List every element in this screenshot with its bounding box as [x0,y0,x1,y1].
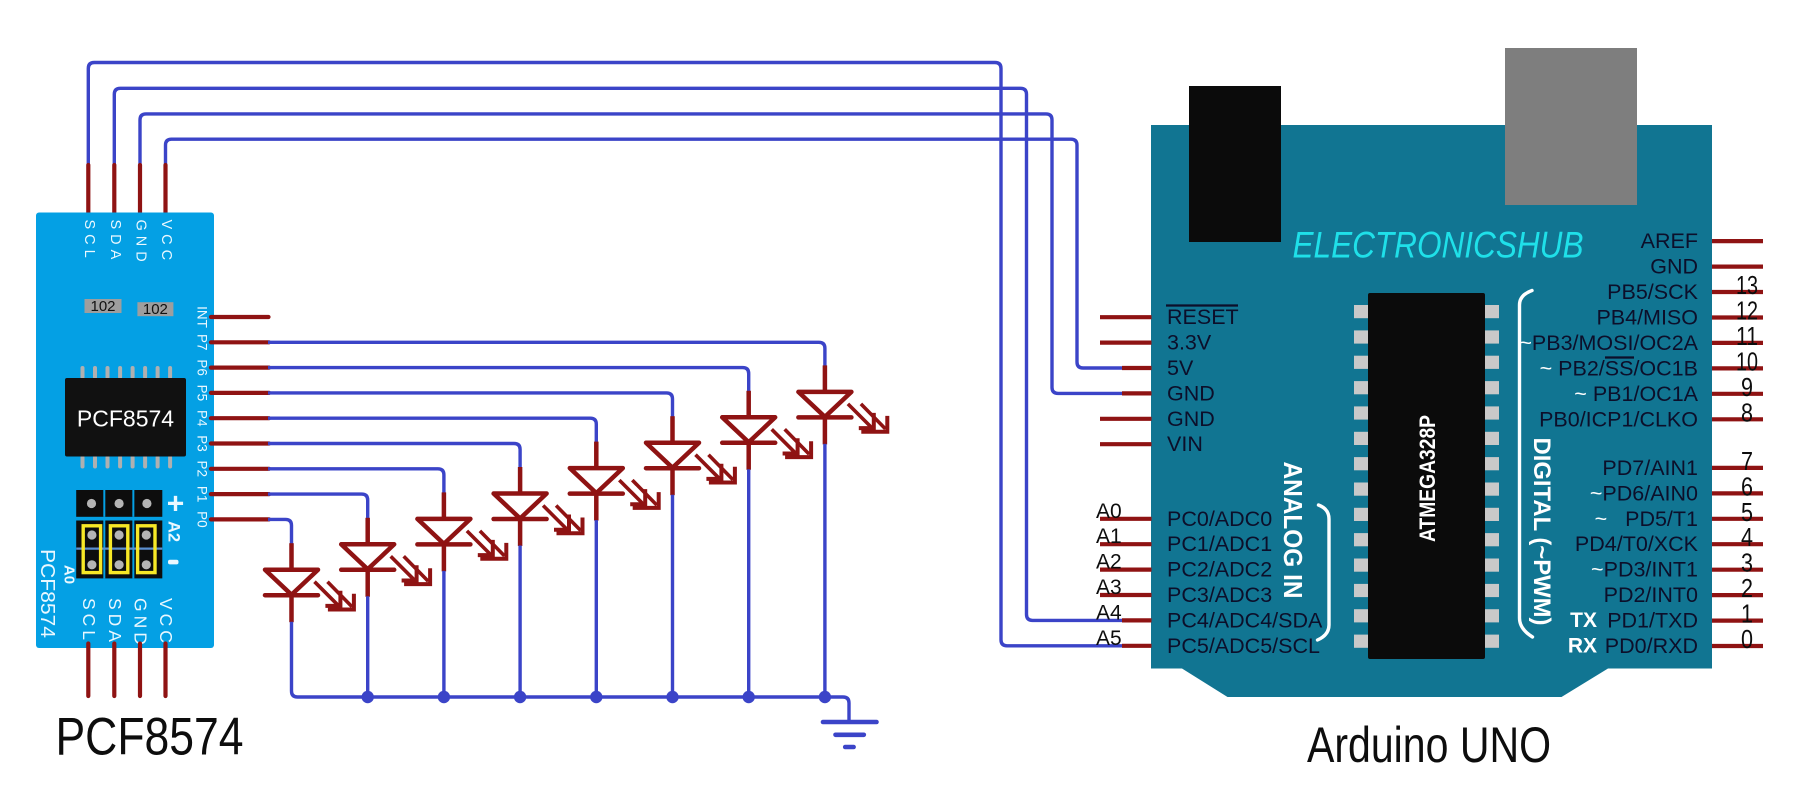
pin stub P3 [211,441,269,445]
svg-text:ATMEGA328P: ATMEGA328P [1415,415,1440,542]
pin line PB5/SCK (right) [1712,290,1763,294]
LED D5 [570,442,661,521]
pin line PB4/MISO (right) [1712,315,1763,319]
wire LED D5 cathode to ground bus [595,520,598,697]
pin line GND (left) [1100,417,1152,421]
pin line A0 [1100,517,1152,521]
pin stub INT [211,315,269,319]
pin line PD7/AIN1 (right) [1712,466,1763,470]
svg-text:~PD6/AIN0: ~PD6/AIN0 [1590,481,1698,505]
pin line GND (right) [1712,265,1763,269]
wire ground bus [292,691,850,722]
jumper block A0/A1/A2 [76,521,162,579]
pin line A4 [1122,618,1152,622]
wire SCL to A5/PC5 [88,63,1123,646]
resistor R1 102 [85,298,122,315]
label minus [168,560,179,565]
svg-text:PB5/SCK: PB5/SCK [1607,280,1698,304]
PCF8574 module board [36,213,214,649]
pin line PD0/RXD (right) [1712,644,1763,648]
svg-text:+: + [167,488,185,521]
Arduino UNO board [1151,125,1712,697]
pin stub P1 [211,492,269,496]
pin line RESET (left) [1100,315,1152,319]
svg-text:VCC: VCC [156,598,176,647]
pin line GND (left) [1122,391,1152,395]
wire LED D8 cathode to ground bus [823,444,826,697]
pin stub P2 [211,467,269,471]
header pads row (+) [76,490,162,517]
svg-text:A5: A5 [1096,627,1122,650]
svg-text:GND: GND [131,598,151,649]
pin line PB0/ICP1/CLKO (right) [1712,417,1763,421]
pin stub SCL (module top) [86,165,90,217]
LED D3 [417,492,508,571]
SS overline [1605,356,1634,358]
svg-text:PD1/TXD: PD1/TXD [1607,609,1698,633]
resistor R2 102 [137,301,173,318]
pin line A5 [1122,644,1152,648]
pin line PD6/AIN0 (right) [1712,491,1763,495]
svg-text:A4: A4 [1096,601,1122,624]
power jack [1505,48,1637,205]
pin stub P4 [211,416,269,420]
svg-text:~ PB1/OC1A: ~ PB1/OC1A [1574,382,1698,406]
wire P0 to LED D1 [268,519,292,544]
svg-text:0: 0 [1741,624,1753,654]
LED D4 [494,467,585,546]
wire SDA to A4/PC4 [114,88,1123,620]
svg-text:102: 102 [90,298,115,315]
wire P6 to LED D7 [268,368,749,393]
svg-text:3.3V: 3.3V [1167,331,1212,355]
svg-text:PD0/RXD: PD0/RXD [1605,634,1698,658]
pin stub SDA (module bottom) [112,644,116,697]
svg-text:~PD3/INT1: ~PD3/INT1 [1591,558,1698,582]
svg-text:PC0/ADC0: PC0/ADC0 [1167,507,1272,531]
RESET overline [1166,304,1238,306]
wire LED D4 cathode to ground bus [518,546,521,698]
svg-text:PC2/ADC2: PC2/ADC2 [1167,558,1272,582]
pin stub GND (module bottom) [138,644,142,697]
svg-text:RESET: RESET [1167,305,1239,329]
pin stub GND (module top) [138,165,142,217]
svg-text:PD2/INT0: PD2/INT0 [1604,583,1698,607]
svg-text:AREF: AREF [1641,229,1698,253]
svg-text:A1: A1 [1096,525,1122,548]
svg-text:A0: A0 [61,565,78,584]
svg-text:RX: RX [1568,635,1597,658]
svg-text:A2: A2 [165,521,183,542]
pin line PB1/OC1A (right) [1712,392,1763,396]
junction dot at LED D6 [666,691,678,703]
svg-text:P1: P1 [195,486,210,503]
svg-text:PB4/MISO: PB4/MISO [1596,306,1698,330]
pin stub P6 [211,366,269,370]
svg-text:SDA: SDA [107,220,123,265]
junction dot at LED D7 [743,691,755,703]
IC ATMEGA328P [1354,293,1499,659]
pin line PB3/MOSI/OC2A (right) [1712,341,1763,345]
wire P5 to LED D6 [268,393,673,418]
wire LED D1 cathode to ground bus [290,622,293,691]
pin line VIN (left) [1100,442,1152,446]
LED D6 [646,416,737,495]
svg-text:SDA: SDA [105,598,125,646]
svg-text:TX: TX [1570,609,1597,632]
svg-text:A3: A3 [1096,576,1122,599]
svg-text:PC1/ADC1: PC1/ADC1 [1167,532,1272,556]
svg-text:5V: 5V [1167,356,1194,380]
svg-text:PD7/AIN1: PD7/AIN1 [1602,456,1698,480]
pin line PD2/INT0 (right) [1712,593,1763,597]
svg-text:8: 8 [1741,397,1753,427]
pin line AREF (right) [1712,239,1763,243]
svg-text:P5: P5 [195,385,210,402]
svg-text:PD4/T0/XCK: PD4/T0/XCK [1575,532,1699,556]
wire P7 to LED D8 [268,342,825,367]
wire VCC to 5V [166,139,1124,368]
pin stub SDA (module top) [112,165,116,217]
svg-text:~ PB2/SS/OC1B: ~ PB2/SS/OC1B [1540,356,1698,380]
USB connector [1189,86,1281,242]
svg-text:A2: A2 [1096,551,1122,574]
svg-text:P7: P7 [195,334,210,351]
junction dot at LED D8 [819,691,831,703]
svg-text:PCF8574: PCF8574 [56,708,244,767]
svg-text:GND: GND [1167,407,1215,431]
pin line PD1/TXD (right) [1712,618,1763,622]
LED D8 [798,365,889,444]
bracket digital [1520,291,1533,638]
svg-text:PCF8574: PCF8574 [36,549,58,638]
LED D1 [265,543,356,622]
svg-text:ANALOG IN: ANALOG IN [1278,462,1308,599]
pin stub VCC (module top) [163,165,167,217]
wire GND to GND [140,114,1123,394]
pin line A2 [1100,567,1152,571]
svg-text:PC4/ADC4/SDA: PC4/ADC4/SDA [1167,608,1323,632]
wire LED D6 cathode to ground bus [671,495,674,697]
pin line PD3/INT1 (right) [1712,568,1763,572]
junction dot at LED D4 [514,691,526,703]
svg-text:102: 102 [143,301,168,318]
junction dot at LED D2 [362,691,374,703]
LED D7 [722,391,813,470]
IC U1 PCF8574 (SMD) [65,368,186,467]
svg-text:PB0/ICP1/CLKO: PB0/ICP1/CLKO [1539,407,1698,431]
svg-text:~PB3/MOSI/OC2A: ~PB3/MOSI/OC2A [1519,331,1698,355]
pin stub SCL (module bottom) [86,644,90,697]
LED D2 [341,518,432,597]
svg-text:SCL: SCL [81,220,97,263]
pin stub P0 [211,517,269,521]
pin line A3 [1100,593,1152,597]
wire LED D7 cathode to ground bus [747,469,750,697]
svg-text:~ PD5/T1: ~ PD5/T1 [1595,507,1698,531]
svg-text:GND: GND [1650,255,1698,279]
ground symbol [823,722,877,747]
svg-text:GND: GND [133,220,149,267]
pin stub P7 [211,340,269,344]
pin line 5V (left) [1122,366,1152,370]
pin stub P5 [211,391,269,395]
svg-text:SCL: SCL [79,598,99,644]
wire P4 to LED D5 [268,418,596,443]
svg-text:P2: P2 [195,461,210,478]
wire P3 to LED D4 [268,444,520,469]
svg-text:INT: INT [195,306,210,328]
junction dot at LED D3 [438,691,450,703]
svg-text:P0: P0 [195,511,210,528]
svg-text:VIN: VIN [1167,432,1203,456]
svg-text:Arduino UNO: Arduino UNO [1307,717,1551,773]
pin line PB2/SS/OC1B (right) [1712,366,1763,370]
bracket analog [1318,505,1330,640]
svg-text:PC5/ADC5/SCL: PC5/ADC5/SCL [1167,634,1320,658]
pin line PD5/T1 (right) [1712,517,1763,521]
svg-text:A0: A0 [1096,500,1122,523]
svg-text:DIGITAL (~PWM): DIGITAL (~PWM) [1528,438,1555,626]
wire LED D3 cathode to ground bus [442,571,445,697]
wire P1 to LED D2 [268,494,368,519]
svg-text:GND: GND [1167,381,1215,405]
svg-text:VCC: VCC [158,220,174,266]
svg-text:PCF8574: PCF8574 [77,406,174,432]
pin stub VCC (module bottom) [163,644,167,697]
svg-text:P4: P4 [195,410,210,427]
wire P2 to LED D3 [268,469,444,494]
pin line PD4/T0/XCK (right) [1712,542,1763,546]
svg-text:ELECTRONICSHUB: ELECTRONICSHUB [1293,225,1584,266]
svg-text:PC3/ADC3: PC3/ADC3 [1167,583,1272,607]
svg-text:P6: P6 [195,359,210,376]
pin line 3.3V (left) [1100,341,1152,345]
junction dot at LED D5 [590,691,602,703]
wire LED D2 cathode to ground bus [366,596,369,697]
svg-text:P3: P3 [195,435,210,452]
pin line A1 [1100,542,1152,546]
